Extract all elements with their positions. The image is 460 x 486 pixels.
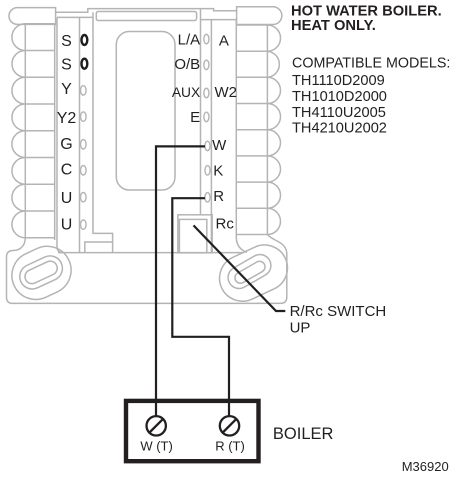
- svg-text:W: W: [212, 137, 227, 154]
- svg-text:TH4210U2002: TH4210U2002: [292, 121, 387, 137]
- wallplate top edge profile: [56, 9, 237, 13]
- svg-text:R: R: [213, 188, 224, 205]
- battery compartment: [116, 32, 175, 191]
- svg-text:R (T): R (T): [215, 439, 245, 454]
- wallplate right loop column: [236, 20, 280, 253]
- left terminal labels: [57, 33, 77, 234]
- screw K: [205, 166, 210, 176]
- svg-text:TH4110U2005: TH4110U2005: [292, 105, 386, 121]
- screw AUX: [204, 88, 209, 98]
- svg-text:UP: UP: [290, 319, 311, 336]
- left mounting ear slot: [23, 259, 60, 286]
- screw C: [81, 166, 87, 175]
- R/Rc switch slider inner box: [179, 219, 206, 252]
- R/Rc switch slider outer box: [178, 215, 212, 253]
- screw G: [81, 140, 87, 149]
- svg-text:W2: W2: [215, 84, 238, 101]
- wallplate top-right tab: [237, 7, 282, 25]
- screw O/B: [204, 60, 209, 70]
- wallplate left loop column: [12, 24, 55, 240]
- right mounting ear slot: [233, 259, 267, 285]
- screw L/A: [204, 34, 209, 44]
- screw E: [204, 112, 209, 122]
- svg-text:HEAT ONLY.: HEAT ONLY.: [291, 18, 376, 34]
- wallplate left label strip: [57, 17, 93, 252]
- svg-text:K: K: [213, 163, 223, 180]
- wallplate bottom bar: [7, 235, 287, 304]
- svg-text:S: S: [61, 33, 72, 50]
- svg-text:U: U: [61, 190, 73, 207]
- right mounting ear middle ring: [224, 250, 275, 292]
- screw U2: [81, 220, 87, 229]
- screw U1: [81, 193, 87, 202]
- svg-text:O/B: O/B: [174, 56, 200, 73]
- svg-text:COMPATIBLE MODELS:: COMPATIBLE MODELS:: [292, 56, 450, 72]
- svg-text:M36920: M36920: [402, 459, 449, 474]
- svg-text:L/A: L/A: [178, 31, 201, 48]
- svg-text:W (T): W (T): [140, 439, 172, 454]
- svg-text:G: G: [60, 136, 72, 153]
- svg-text:R/Rc SWITCH: R/Rc SWITCH: [290, 303, 387, 320]
- svg-text:Y: Y: [61, 81, 72, 98]
- svg-text:A: A: [219, 32, 229, 49]
- svg-text:U: U: [61, 217, 73, 234]
- boiler screw terminal R(T): [220, 416, 239, 435]
- wire from R terminal to boiler: [172, 198, 229, 415]
- right outer terminal labels: [212, 32, 237, 232]
- screw R: [205, 193, 210, 203]
- R/Rc switch pointer leader line: [194, 225, 286, 311]
- wallplate left screw column and bottom step: [85, 12, 113, 252]
- screw W: [205, 141, 210, 151]
- svg-text:TH1010D2000: TH1010D2000: [292, 89, 387, 105]
- wire from W terminal to boiler: [156, 146, 205, 415]
- boiler box: [126, 401, 259, 461]
- right mounting ear outer ring: [212, 237, 295, 308]
- terminal screws right column: [204, 34, 210, 202]
- svg-text:Rc: Rc: [216, 215, 235, 232]
- screw S1 (black): [82, 35, 88, 45]
- right inner terminal labels: [172, 31, 200, 126]
- wallplate top-left tab: [9, 8, 56, 25]
- svg-text:Y2: Y2: [57, 110, 77, 127]
- left mounting ear outer ring: [4, 238, 79, 307]
- svg-text:C: C: [61, 162, 73, 179]
- wallplate right screw column: [201, 9, 237, 253]
- svg-text:S: S: [61, 57, 72, 74]
- screw Y2: [81, 112, 87, 121]
- left mounting ear middle ring: [16, 252, 67, 293]
- svg-text:AUX: AUX: [172, 85, 200, 100]
- wallplate top ridge: [96, 12, 196, 21]
- svg-text:TH1110D2009: TH1110D2009: [292, 73, 385, 89]
- screw Y: [81, 86, 87, 95]
- svg-text:E: E: [190, 109, 200, 126]
- boiler screw terminal W(T): [147, 416, 166, 435]
- screw S2 (black): [82, 59, 88, 69]
- terminal screws left column: [81, 86, 87, 230]
- svg-text:BOILER: BOILER: [273, 425, 334, 443]
